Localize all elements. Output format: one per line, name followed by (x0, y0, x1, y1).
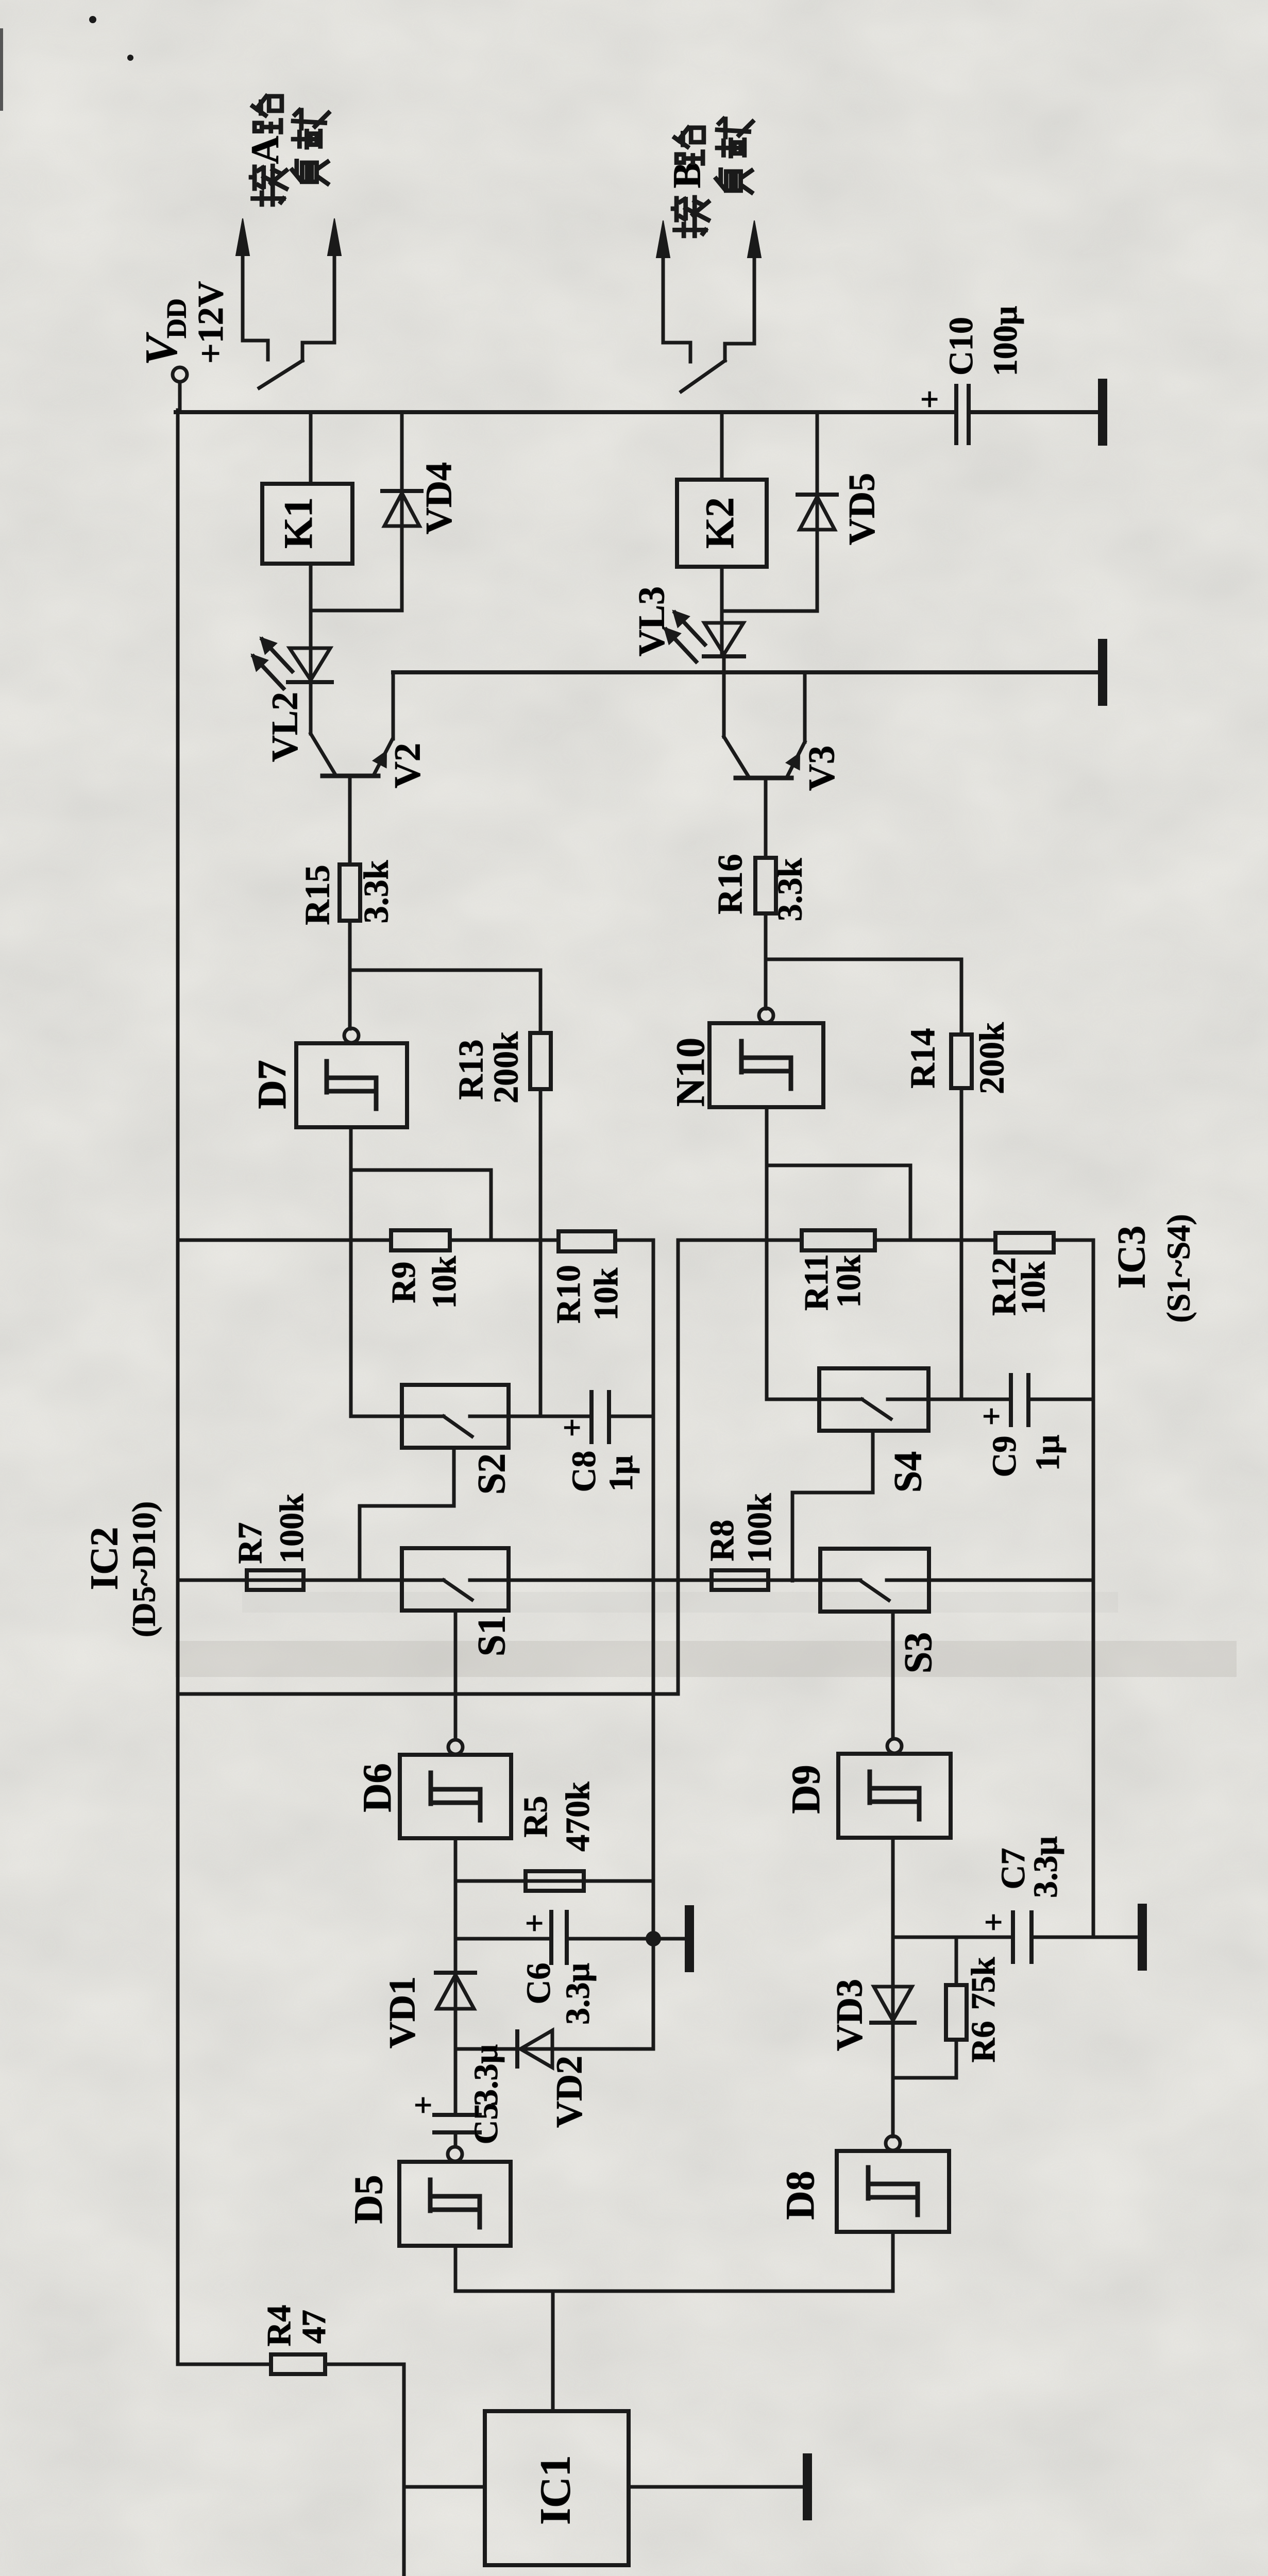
svg-text:3.3μ: 3.3μ (559, 1963, 597, 2025)
svg-text:3.3k: 3.3k (357, 860, 396, 923)
svg-text:S3: S3 (897, 1632, 940, 1673)
svg-text:3.3μ: 3.3μ (467, 2044, 505, 2106)
svg-text:VD5: VD5 (841, 473, 883, 545)
svg-text:D9: D9 (783, 1765, 828, 1814)
svg-text:D5: D5 (346, 2175, 391, 2224)
svg-text:B: B (665, 162, 708, 189)
svg-text:DD: DD (161, 298, 192, 338)
svg-text:(S1~S4): (S1~S4) (1160, 1214, 1197, 1323)
svg-text:S1: S1 (470, 1615, 513, 1656)
svg-text:IC2: IC2 (82, 1527, 126, 1590)
svg-text:10k: 10k (426, 1256, 463, 1309)
svg-text:D7: D7 (249, 1060, 294, 1109)
svg-text:3.3k: 3.3k (770, 858, 809, 921)
svg-text:+: + (516, 1914, 553, 1933)
svg-text:VL2: VL2 (264, 692, 306, 762)
svg-text:+12V: +12V (191, 281, 231, 364)
svg-text:100k: 100k (741, 1493, 779, 1563)
svg-text:S4: S4 (886, 1451, 929, 1493)
svg-text:R4: R4 (260, 2305, 298, 2347)
svg-text:470k: 470k (559, 1782, 597, 1852)
svg-text:N10: N10 (668, 1038, 713, 1107)
svg-text:C9: C9 (986, 1436, 1023, 1478)
svg-text:K2: K2 (697, 497, 742, 549)
svg-text:D8: D8 (777, 2171, 822, 2219)
svg-text:VD3: VD3 (829, 1979, 870, 2051)
svg-text:C5: C5 (467, 2103, 505, 2145)
svg-text:V3: V3 (801, 745, 842, 791)
svg-text:R9: R9 (385, 1262, 422, 1303)
svg-text:R6: R6 (965, 2021, 1002, 2063)
svg-text:C10: C10 (942, 317, 980, 376)
svg-text:D6: D6 (354, 1763, 399, 1812)
svg-text:+: + (554, 1418, 590, 1437)
svg-text:75k: 75k (965, 1957, 1002, 2010)
svg-text:C6: C6 (520, 1963, 557, 2005)
svg-text:100μ: 100μ (987, 306, 1024, 376)
svg-text:3.3μ: 3.3μ (1027, 1836, 1064, 1898)
svg-text:(D5~D10): (D5~D10) (126, 1501, 162, 1637)
svg-text:R5: R5 (517, 1796, 554, 1838)
svg-text:+: + (911, 390, 948, 409)
svg-text:R16: R16 (711, 854, 750, 914)
svg-text:VD1: VD1 (382, 1976, 423, 2048)
svg-text:1μ: 1μ (602, 1455, 640, 1492)
svg-text:IC3: IC3 (1110, 1226, 1153, 1289)
svg-text:10k: 10k (1015, 1261, 1052, 1314)
svg-text:R7: R7 (231, 1522, 269, 1564)
svg-text:47: 47 (295, 2310, 333, 2344)
svg-text:R15: R15 (298, 865, 337, 925)
svg-text:IC1: IC1 (531, 2455, 579, 2524)
svg-text:R14: R14 (903, 1028, 942, 1088)
svg-text:R13: R13 (451, 1039, 491, 1099)
svg-text:10k: 10k (587, 1267, 625, 1320)
svg-text:VL3: VL3 (631, 586, 672, 656)
svg-text:+: + (405, 2096, 442, 2114)
svg-text:R10: R10 (550, 1265, 587, 1324)
svg-text:200k: 200k (486, 1031, 526, 1104)
svg-text:10k: 10k (830, 1255, 868, 1308)
svg-text:K1: K1 (276, 497, 320, 549)
svg-text:R8: R8 (703, 1520, 741, 1562)
svg-text:+: + (975, 1913, 1012, 1931)
svg-text:100k: 100k (273, 1494, 311, 1564)
svg-text:S2: S2 (470, 1453, 513, 1495)
svg-text:200k: 200k (972, 1022, 1011, 1094)
svg-text:VD4: VD4 (418, 462, 460, 534)
svg-text:VD2: VD2 (549, 2056, 590, 2128)
svg-text:1μ: 1μ (1029, 1435, 1067, 1471)
svg-text:+: + (973, 1407, 1010, 1426)
svg-text:A: A (243, 135, 286, 164)
svg-text:C8: C8 (565, 1451, 603, 1493)
svg-text:V2: V2 (387, 743, 428, 788)
